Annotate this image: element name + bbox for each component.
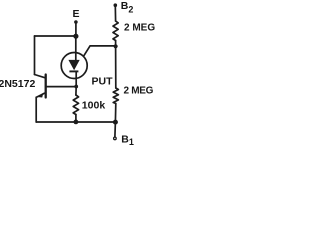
- svg-text:100k: 100k: [82, 100, 106, 112]
- wire collector lead: [35, 75, 46, 78]
- wire E lead: [75, 22, 77, 36]
- node J2: [114, 44, 118, 48]
- terminal E: [74, 20, 78, 24]
- resistor R1 2 MEG: [113, 21, 118, 41]
- wire base lead: [47, 86, 77, 88]
- terminal B2: [114, 3, 118, 7]
- resistor R2 2 MEG: [113, 88, 118, 103]
- wire B2 lead: [114, 6, 116, 22]
- wire R2 to node: [114, 104, 116, 123]
- svg-text:2 MEG: 2 MEG: [124, 86, 154, 97]
- wire gate lead: [84, 46, 116, 56]
- wire anode lead: [75, 36, 77, 61]
- PUT U1 cathode bar: [69, 70, 78, 72]
- PUT U1 anode triangle: [68, 60, 79, 70]
- transistor Q1 emitter arrowhead: [37, 93, 43, 98]
- wire bottom horizontal: [36, 121, 115, 123]
- svg-text:2N5172: 2N5172: [0, 78, 35, 90]
- terminal B1: [114, 137, 117, 140]
- wire R3 bottom lead: [75, 115, 77, 123]
- node J5: [113, 120, 118, 125]
- wire node to R2: [115, 46, 117, 88]
- wire R3 top lead: [75, 87, 77, 96]
- wire cathode lead: [75, 72, 77, 87]
- transistor Q1 emitter diagonal: [36, 93, 45, 98]
- wire emitter vertical: [35, 97, 37, 122]
- svg-text:PUT: PUT: [92, 76, 114, 88]
- node J4: [74, 120, 79, 125]
- wire left vertical: [34, 36, 36, 75]
- wire R1 to node: [115, 41, 117, 47]
- node J3: [74, 85, 78, 89]
- svg-text:E: E: [73, 8, 80, 20]
- svg-text:2 MEG: 2 MEG: [124, 23, 155, 34]
- transistor Q1 2N5172 base bar: [45, 75, 47, 98]
- wire top horizontal: [35, 35, 76, 37]
- resistor R3 100k: [73, 95, 78, 114]
- wire B1 lead: [114, 122, 117, 137]
- PUT U1 body: [61, 53, 87, 79]
- node J1: [73, 34, 78, 39]
